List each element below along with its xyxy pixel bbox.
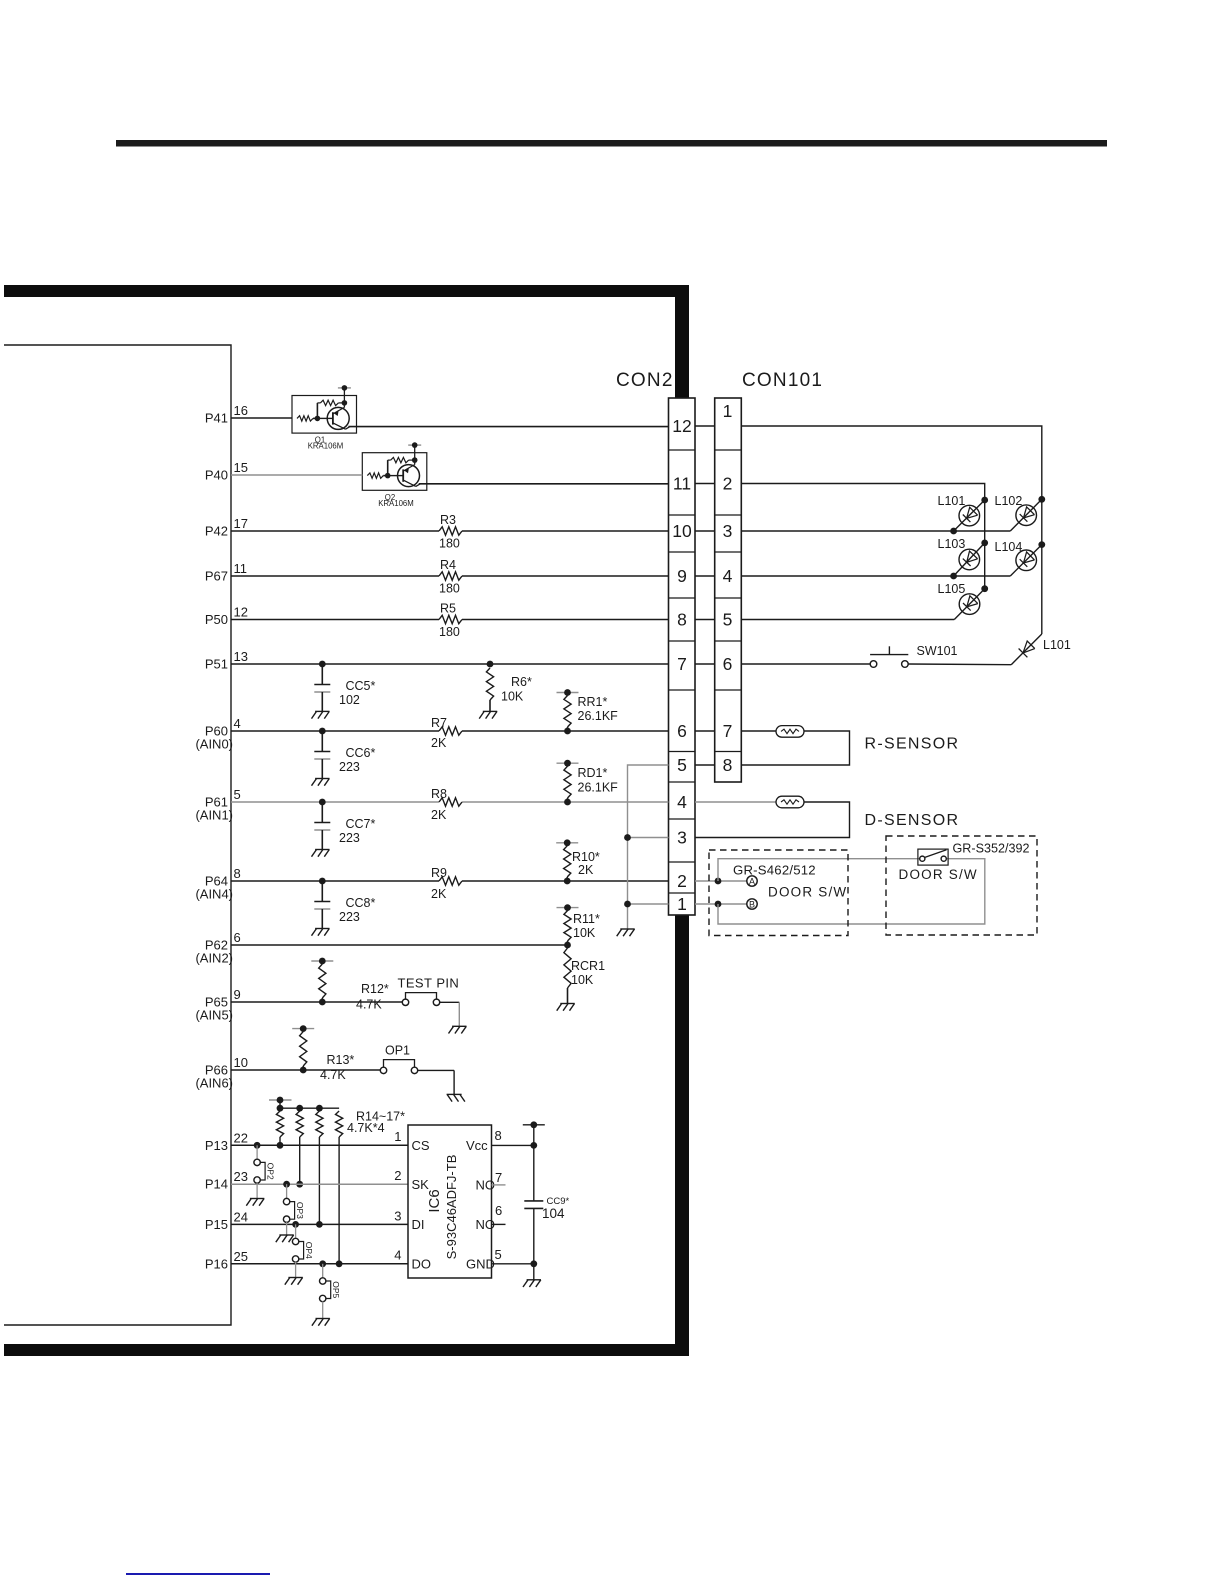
wire OP1 to ground [418, 1070, 465, 1101]
pin number 24 [234, 1209, 248, 1224]
svg-text:8: 8 [495, 1128, 502, 1143]
dashed box GR-S352/392 [886, 836, 1037, 935]
lamp L101 [954, 500, 985, 531]
wire P-row R3 left [231, 530, 439, 532]
wire P14 [231, 1183, 408, 1185]
wire P-row R4 left [231, 575, 439, 577]
node L105 top [981, 585, 988, 592]
svg-text:R10*: R10* [572, 850, 600, 864]
IC6 pin 3 number [394, 1209, 401, 1224]
svg-text:10K: 10K [573, 926, 596, 940]
wire R4 to CON2 [462, 575, 669, 577]
pin label P15 [205, 1217, 228, 1232]
svg-text:10K: 10K [501, 690, 524, 704]
svg-text:10K: 10K [571, 973, 594, 987]
label CON101 [742, 370, 823, 391]
node B [747, 899, 757, 910]
label L101 [938, 494, 966, 508]
pin number 12 [234, 605, 248, 620]
resistor R11 pull-up [557, 904, 579, 948]
svg-text:223: 223 [339, 831, 360, 845]
transistor Q2 (KRA106M) [362, 442, 427, 490]
svg-text:15: 15 [234, 460, 248, 475]
svg-text:223: 223 [339, 910, 360, 924]
svg-text:OP4: OP4 [304, 1242, 314, 1259]
IC6 pin 7 number [495, 1170, 502, 1185]
svg-text:1: 1 [677, 894, 687, 914]
node L102 top [1038, 496, 1045, 503]
svg-text:CC8*: CC8* [346, 896, 376, 910]
wire CON2-10 to CON101-3 [695, 530, 715, 532]
label R-SENSOR [865, 736, 960, 753]
wire IC6 pin7 stub [492, 1184, 506, 1186]
svg-text:2: 2 [677, 871, 687, 891]
Vcc supply bar IC6 [523, 1121, 545, 1128]
label R8 [431, 787, 447, 801]
connector CON2 body [669, 398, 696, 915]
capacitor CC9 [524, 1201, 543, 1280]
svg-text:R4: R4 [440, 558, 456, 572]
CON101 pin 6 number [723, 654, 733, 674]
door switch loop [718, 859, 985, 924]
ground rail [617, 929, 635, 936]
svg-text:CC5*: CC5* [346, 679, 376, 693]
resistor R9 [439, 877, 462, 885]
resistor R5 [439, 615, 462, 623]
label RR1 [578, 695, 608, 709]
ground IC6 rail [523, 1280, 541, 1287]
svg-text:DOOR S/W: DOOR S/W [768, 885, 847, 900]
CON101 pin 8 number [723, 755, 733, 775]
label TEST PIN [398, 976, 460, 991]
svg-text:R5: R5 [440, 602, 456, 616]
svg-text:12: 12 [234, 605, 248, 620]
resistor R6 [479, 661, 497, 719]
node L103 top [981, 540, 988, 547]
wire CON101-7 sensor [741, 730, 776, 732]
wire P60 [231, 730, 669, 732]
svg-text:1: 1 [394, 1129, 401, 1144]
pin label P50 [205, 612, 228, 627]
pin label P13 [205, 1138, 228, 1153]
pin label P61 [195, 795, 233, 823]
door switch SW contacts [918, 849, 948, 865]
label R8 value [431, 808, 447, 822]
label R4 value [439, 582, 460, 596]
label L102 [995, 494, 1023, 508]
wire CON101-4 lamps [741, 573, 1010, 580]
svg-text:180: 180 [439, 582, 460, 596]
svg-text:7: 7 [723, 721, 733, 741]
svg-text:OP2: OP2 [266, 1163, 276, 1180]
lamp L103 [954, 543, 985, 576]
svg-text:2K: 2K [431, 808, 447, 822]
svg-text:2: 2 [394, 1168, 401, 1183]
label CC9 value [542, 1206, 565, 1221]
label CON2 [616, 370, 674, 391]
svg-text:6: 6 [234, 930, 241, 945]
pin number 10 [234, 1055, 248, 1070]
resistor network R14~17 [269, 1097, 343, 1268]
CON2 pin 1 number [677, 894, 687, 914]
svg-text:12: 12 [672, 416, 691, 436]
svg-text:CC6*: CC6* [346, 746, 376, 760]
pin number 4 [234, 716, 241, 731]
pin label P65 [195, 995, 233, 1023]
svg-text:10: 10 [234, 1055, 248, 1070]
svg-text:R6*: R6* [511, 675, 532, 689]
svg-text:26.1KF: 26.1KF [578, 709, 619, 723]
CON2 pin 4 number [677, 792, 687, 812]
svg-text:(AIN4): (AIN4) [195, 887, 233, 902]
svg-text:180: 180 [439, 537, 460, 551]
label RR1 value [578, 709, 619, 723]
svg-text:16: 16 [234, 403, 248, 418]
D-sensor element [776, 796, 804, 808]
label R3 value [439, 537, 460, 551]
svg-text:CC7*: CC7* [346, 817, 376, 831]
wire Q1 collector to CON2-12 [348, 426, 668, 428]
pin number 13 [234, 649, 248, 664]
svg-text:IC6: IC6 [426, 1189, 443, 1212]
CON2 pin 6 number [677, 721, 687, 741]
IC6 pin DO label [412, 1257, 432, 1272]
svg-text:R13*: R13* [327, 1053, 355, 1067]
svg-text:P42: P42 [205, 524, 228, 539]
wire IC6 pin8 Vcc [492, 1142, 538, 1149]
label DOOR S/W 2 [899, 867, 978, 882]
svg-text:OP1: OP1 [385, 1044, 410, 1058]
svg-text:4.7K*4: 4.7K*4 [347, 1121, 385, 1135]
label R12 value [356, 998, 382, 1012]
label L103 [938, 537, 966, 551]
svg-text:8: 8 [677, 610, 687, 630]
svg-text:TEST PIN: TEST PIN [398, 976, 460, 991]
wire P41 to Q1 [231, 417, 292, 419]
label GR-S352/392 [953, 842, 1030, 856]
wire P66 [231, 1069, 381, 1071]
svg-text:5: 5 [677, 755, 687, 775]
wire CON101-5 lamps [741, 619, 954, 621]
svg-text:L101: L101 [1043, 638, 1071, 652]
jumper OP2 [246, 1142, 275, 1206]
resistor RR1 pull-up [557, 689, 579, 734]
svg-text:3: 3 [723, 521, 733, 541]
CON2 pin 9 number [677, 566, 687, 586]
svg-text:RR1*: RR1* [578, 695, 608, 709]
svg-text:9: 9 [234, 987, 241, 1002]
svg-text:GR-S462/512: GR-S462/512 [733, 863, 816, 878]
pin label P64 [195, 874, 233, 902]
CON101 pin 1 number [723, 401, 733, 421]
label R14~17 value [347, 1121, 385, 1135]
IC6 pin CS label [412, 1138, 430, 1153]
IC6 pin SK label [412, 1177, 430, 1192]
resistor R4 [439, 572, 462, 580]
svg-text:4.7K: 4.7K [320, 1068, 346, 1082]
resistor R7 [439, 727, 462, 735]
svg-text:5: 5 [234, 787, 241, 802]
wire R5 to CON2 [462, 619, 669, 621]
svg-text:RCR1: RCR1 [571, 959, 605, 973]
label R11 [573, 912, 600, 926]
label Q2 KRA106M [378, 499, 414, 508]
svg-text:R8: R8 [431, 787, 447, 801]
pin label P42 [205, 524, 228, 539]
label GR-S462/512 [733, 863, 816, 878]
CON101 pin 7 number [723, 721, 733, 741]
svg-text:CON2: CON2 [616, 370, 674, 391]
wire CON2-7 to CON101-6 [695, 663, 715, 665]
wire CON2-4 sensor [695, 801, 776, 803]
CON2 pin 7 number [677, 654, 687, 674]
svg-text:4: 4 [677, 792, 687, 812]
svg-text:104: 104 [542, 1206, 565, 1221]
jumper OP1 [380, 1060, 417, 1074]
wire CON101-3 lamps [741, 528, 1010, 535]
IC6 pin GND label [466, 1257, 495, 1272]
svg-text:L105: L105 [938, 582, 966, 596]
svg-text:DOOR S/W: DOOR S/W [899, 867, 978, 882]
svg-text:6: 6 [677, 721, 687, 741]
label R9 value [431, 887, 447, 901]
svg-text:L102: L102 [995, 494, 1023, 508]
label L105 [938, 582, 966, 596]
svg-text:7: 7 [677, 654, 687, 674]
svg-text:OP5: OP5 [331, 1281, 341, 1298]
wire CON101-6 to SW101 [741, 663, 870, 665]
label SW101 [917, 644, 958, 658]
svg-text:P41: P41 [205, 411, 228, 426]
svg-text:3: 3 [394, 1209, 401, 1224]
svg-text:7: 7 [495, 1170, 502, 1185]
svg-text:P13: P13 [205, 1138, 228, 1153]
svg-text:2K: 2K [431, 887, 447, 901]
svg-text:KRA106M: KRA106M [378, 499, 414, 508]
IC6 pin 4 number [394, 1248, 401, 1263]
svg-text:GND: GND [466, 1257, 495, 1272]
svg-text:4: 4 [394, 1248, 401, 1263]
label RCR1 value [571, 973, 594, 987]
IC6 pin 8 number [495, 1128, 502, 1143]
pin number 5 [234, 787, 241, 802]
label R5 value [439, 625, 460, 639]
svg-text:25: 25 [234, 1249, 248, 1264]
svg-text:L101: L101 [938, 494, 966, 508]
label Q1 [315, 436, 325, 445]
svg-text:P40: P40 [205, 468, 228, 483]
svg-text:OP3: OP3 [295, 1202, 305, 1219]
svg-text:4: 4 [234, 716, 241, 731]
wire CON2-8 to CON101-5 [695, 619, 715, 621]
capacitor CC5 [312, 661, 331, 719]
IC6 pin 2 number [394, 1168, 401, 1183]
label OP1 [385, 1044, 410, 1058]
label L104 [995, 540, 1023, 554]
capacitor CC6 [312, 728, 331, 786]
wire CON2-2 to A [695, 878, 747, 885]
wire P65 [231, 1001, 402, 1003]
footer blue rule [126, 1573, 270, 1575]
svg-text:R-SENSOR: R-SENSOR [865, 736, 960, 753]
svg-text:P14: P14 [205, 1177, 228, 1192]
wire Q2 collector to CON2-11 [419, 483, 669, 485]
svg-text:(AIN5): (AIN5) [195, 1008, 233, 1023]
label Q2 [385, 493, 395, 502]
IC6 pin 6 number [495, 1203, 502, 1218]
label R5 [440, 602, 456, 616]
wire P40 to Q2 [231, 474, 362, 476]
svg-text:(AIN0): (AIN0) [195, 737, 233, 752]
svg-text:5: 5 [495, 1247, 502, 1262]
svg-text:RD1*: RD1* [578, 766, 608, 780]
svg-text:6: 6 [495, 1203, 502, 1218]
label R10 [572, 850, 600, 864]
wire TEST PIN to ground [440, 1002, 467, 1033]
wire P62 [231, 944, 568, 946]
pin number 16 [234, 403, 248, 418]
label D-SENSOR [865, 812, 960, 829]
svg-text:(AIN2): (AIN2) [195, 951, 233, 966]
svg-text:CS: CS [412, 1138, 430, 1153]
svg-text:23: 23 [234, 1169, 248, 1184]
svg-text:8: 8 [723, 755, 733, 775]
svg-text:8: 8 [234, 866, 241, 881]
lamp L102 [1010, 499, 1042, 531]
pin number 9 [234, 987, 241, 1002]
wire IC6 pin5 GND [492, 1260, 538, 1267]
diode L101 (bottom) [1011, 634, 1042, 665]
pin label P16 [205, 1256, 228, 1271]
schematic frame bottom thick bar [4, 1344, 689, 1356]
pin number 11 [234, 561, 248, 576]
IC6 part number [444, 1155, 459, 1260]
pin label P62 [195, 938, 233, 966]
wire CON2-11 to CON101-2 [695, 483, 715, 485]
label RCR1 [571, 959, 605, 973]
top rule [116, 140, 1107, 147]
CON101 pin 3 number [723, 521, 733, 541]
pin number 22 [234, 1130, 248, 1145]
wire P15 [231, 1223, 408, 1225]
label DOOR S/W 1 [768, 885, 847, 900]
transistor Q1 (KRA106M) [292, 385, 357, 433]
label CC9 [547, 1196, 570, 1207]
label CC7 value [339, 831, 360, 845]
capacitor CC7 [312, 799, 331, 857]
svg-text:P16: P16 [205, 1256, 228, 1271]
svg-text:DO: DO [412, 1257, 432, 1272]
svg-text:R9: R9 [431, 866, 447, 880]
svg-text:GR-S352/392: GR-S352/392 [953, 842, 1030, 856]
connector CON101 body [715, 398, 742, 782]
CON101 pin 5 number [723, 610, 733, 630]
label RD1 [578, 766, 608, 780]
CON2 pin 3 number [677, 828, 687, 848]
svg-text:KRA106M: KRA106M [308, 442, 344, 451]
svg-text:D-SENSOR: D-SENSOR [865, 812, 960, 829]
svg-text:11: 11 [673, 474, 691, 494]
svg-text:P51: P51 [205, 657, 228, 672]
label R3 [440, 513, 456, 527]
label R7 value [431, 736, 447, 750]
CON2 pin 12 number [672, 416, 691, 436]
wire CON2-5 to CON101-8 [695, 764, 715, 766]
svg-text:223: 223 [339, 760, 360, 774]
svg-text:SW101: SW101 [917, 644, 958, 658]
IC6 name [426, 1189, 443, 1212]
node L101 top [981, 497, 988, 504]
resistor R3 [439, 527, 462, 535]
lamp L105 [954, 589, 984, 620]
CON2 pin 8 number [677, 610, 687, 630]
svg-text:CON101: CON101 [742, 370, 823, 391]
IC U6 box [408, 1125, 492, 1278]
jumper OP4 [285, 1221, 314, 1285]
svg-text:6: 6 [723, 654, 733, 674]
switch SW101 [870, 646, 908, 667]
wire CON2-6 to CON101-7 [695, 730, 715, 732]
IC6 pin Vcc label [466, 1138, 488, 1153]
svg-text:P50: P50 [205, 612, 228, 627]
IC6 pin NO6 label [476, 1217, 496, 1232]
pin number 15 [234, 460, 248, 475]
CON2 pin 5 number [677, 755, 687, 775]
node L104 top [1038, 541, 1045, 548]
svg-text:2K: 2K [578, 863, 594, 877]
wire CON2-5 corner [628, 765, 669, 929]
svg-text:S-93C46ADFJ-TB: S-93C46ADFJ-TB [444, 1155, 459, 1260]
svg-text:P15: P15 [205, 1217, 228, 1232]
label L101 diode [1043, 638, 1071, 652]
wire SW101 to L101 diode [908, 663, 1011, 666]
wire CON2-12 to CON101-1 [695, 425, 715, 427]
label CC5 [346, 679, 376, 693]
IC6 pin 1 number [394, 1129, 401, 1144]
label R11 value [573, 926, 596, 940]
svg-text:3: 3 [677, 828, 687, 848]
svg-text:Vcc: Vcc [466, 1138, 488, 1153]
pin number 6 [234, 930, 241, 945]
wire CON2-3 branch [624, 834, 668, 841]
pin number 23 [234, 1169, 248, 1184]
CON2 pin 2 number [677, 871, 687, 891]
IC6 pin 5 number [495, 1247, 502, 1262]
pin number 8 [234, 866, 241, 881]
label CC7 [346, 817, 376, 831]
jumper TEST PIN [402, 993, 439, 1006]
svg-text:26.1KF: 26.1KF [578, 781, 619, 795]
svg-text:17: 17 [234, 516, 248, 531]
jumper OP5 [312, 1260, 341, 1325]
label R7 [431, 716, 447, 730]
label R9 [431, 866, 447, 880]
svg-text:180: 180 [439, 625, 460, 639]
pin label P51 [205, 657, 228, 672]
label CC6 [346, 746, 376, 760]
label R14~17 [356, 1110, 405, 1124]
svg-text:R7: R7 [431, 716, 447, 730]
microcontroller box outline [4, 345, 231, 1325]
schematic frame top thick bar [4, 285, 689, 297]
IC6 pin DI label [412, 1217, 425, 1232]
label CC8 [346, 896, 376, 910]
svg-text:1: 1 [723, 401, 733, 421]
node A [747, 876, 757, 887]
svg-text:A: A [749, 877, 755, 887]
wire P61 [231, 801, 669, 803]
wire CON101-1 top [741, 426, 1042, 634]
